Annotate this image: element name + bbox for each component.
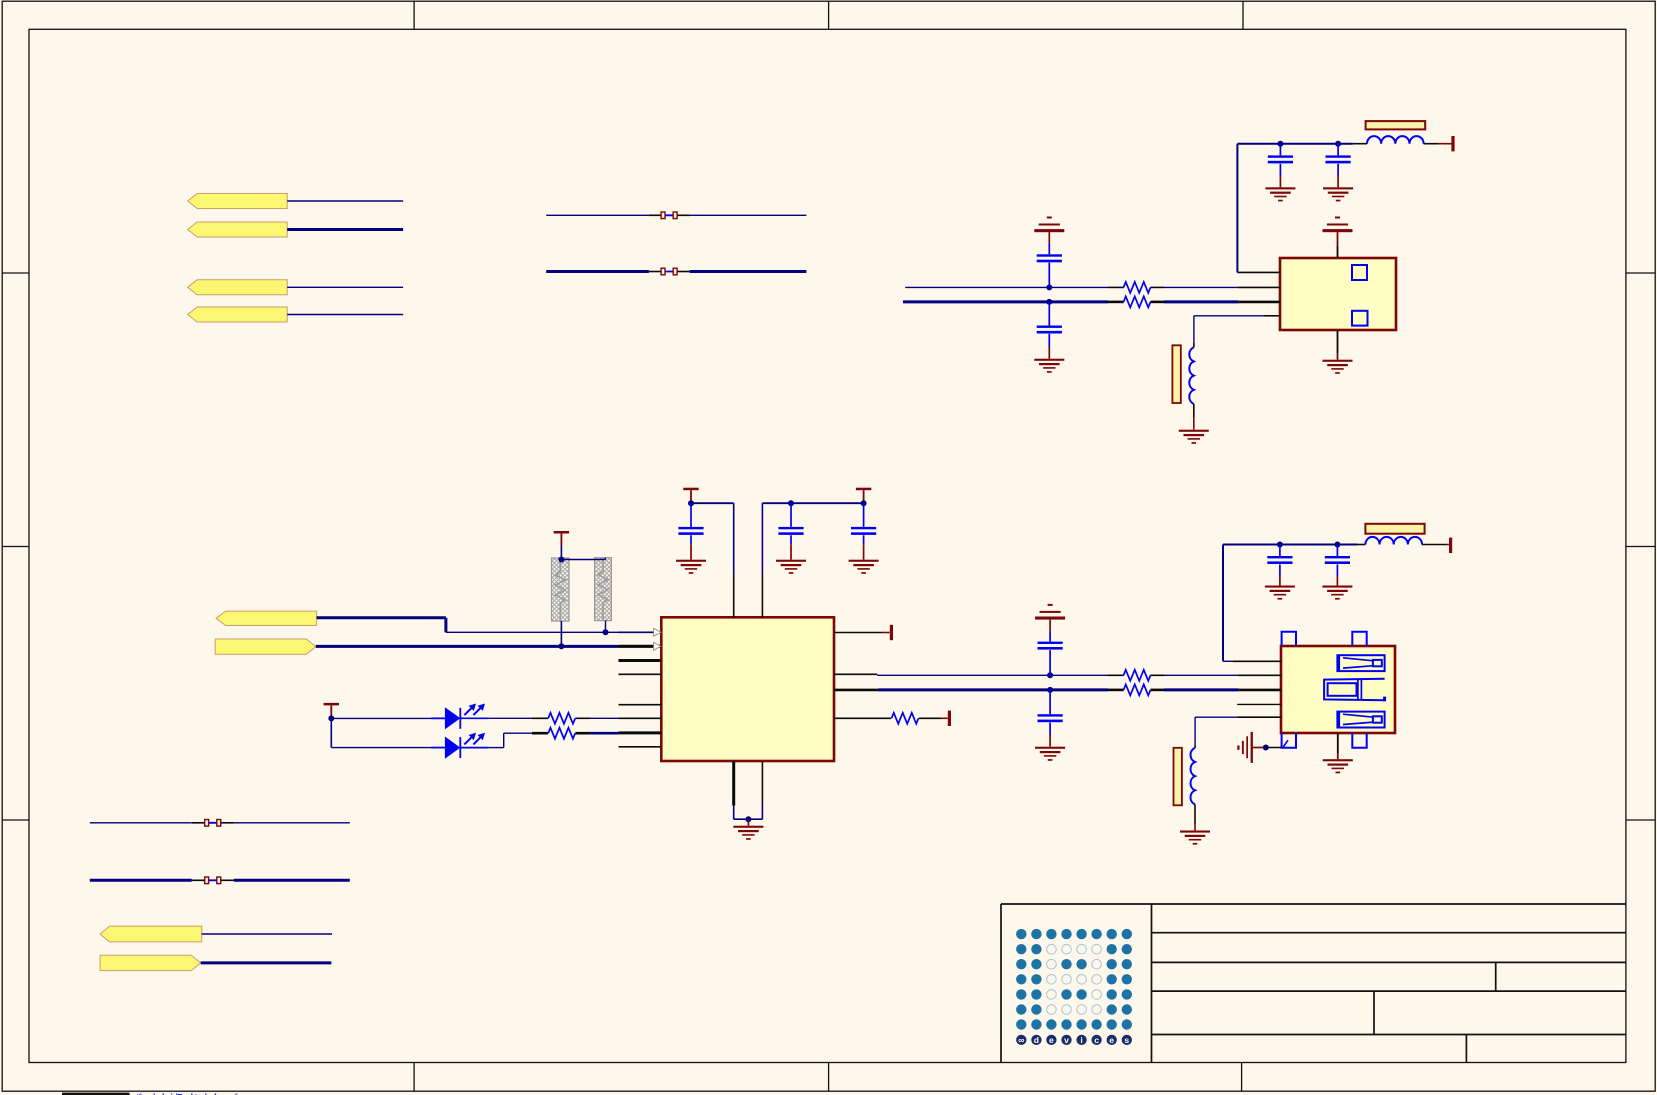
svg-text:e: e (1049, 1035, 1054, 1045)
svg-text:i: i (1080, 1035, 1082, 1045)
svg-text:s: s (1124, 1035, 1129, 1045)
svg-text:∞: ∞ (1018, 1035, 1024, 1045)
svg-text:e: e (1109, 1035, 1114, 1045)
svg-text:v: v (1064, 1035, 1069, 1045)
svg-text:c: c (1094, 1035, 1099, 1045)
svg-text:d: d (1034, 1035, 1039, 1045)
